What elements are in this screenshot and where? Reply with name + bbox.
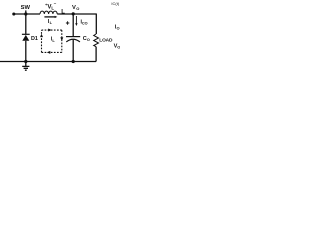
- wire SW stub: [25, 10, 27, 14]
- svg-text:LOAD: LOAD: [99, 38, 113, 44]
- ground: [22, 62, 29, 71]
- capacitor CO lead lower: [72, 40, 74, 62]
- label + polarity: [66, 21, 69, 24]
- svg-text:SW: SW: [21, 5, 31, 11]
- capacitor CO lead upper: [72, 14, 74, 36]
- wire load top lead: [95, 14, 97, 35]
- capacitor CO curved plate: [66, 39, 80, 42]
- svg-text:O: O: [117, 26, 120, 31]
- node ground junction dot: [24, 60, 27, 63]
- resistor LOAD: [94, 34, 99, 47]
- svg-text:–: –: [54, 1, 57, 6]
- svg-text:L: L: [61, 10, 65, 16]
- svg-text:O: O: [76, 6, 79, 11]
- svg-text:O: O: [117, 44, 120, 49]
- diode D1: [25, 14, 27, 34]
- arrow loop left-pointing: [47, 51, 50, 54]
- wire bottom rail: [0, 61, 96, 63]
- wire top rail left: [14, 13, 40, 15]
- inductor L: [40, 11, 57, 14]
- dashed current loop left edge: [41, 30, 43, 52]
- dashed current loop top edge: [42, 29, 62, 31]
- svg-text:O: O: [87, 38, 90, 42]
- node SW terminal dot: [12, 12, 15, 15]
- capacitor CO top plate: [66, 36, 80, 38]
- svg-text:IC(t): IC(t): [111, 1, 119, 6]
- svg-text:L: L: [51, 5, 54, 10]
- svg-text:D1: D1: [31, 36, 38, 42]
- arrow loop up-pointing: [40, 34, 43, 37]
- arrow ICO: [75, 16, 77, 24]
- node SW junction dot: [24, 12, 27, 15]
- node VO junction dot: [72, 12, 75, 15]
- wire load bottom lead: [95, 47, 97, 62]
- svg-text:CO: CO: [82, 21, 88, 25]
- arrow loop right-pointing: [48, 29, 51, 32]
- arrow loop down-pointing: [60, 37, 63, 40]
- wire top rail right: [57, 13, 96, 15]
- node CO bottom junction dot: [72, 60, 75, 63]
- arrow IL solid under inductor: [44, 16, 55, 18]
- dashed current loop right edge: [61, 30, 63, 52]
- svg-text:L: L: [52, 38, 55, 43]
- svg-text:L: L: [50, 20, 53, 25]
- dashed current loop bottom edge: [42, 51, 62, 53]
